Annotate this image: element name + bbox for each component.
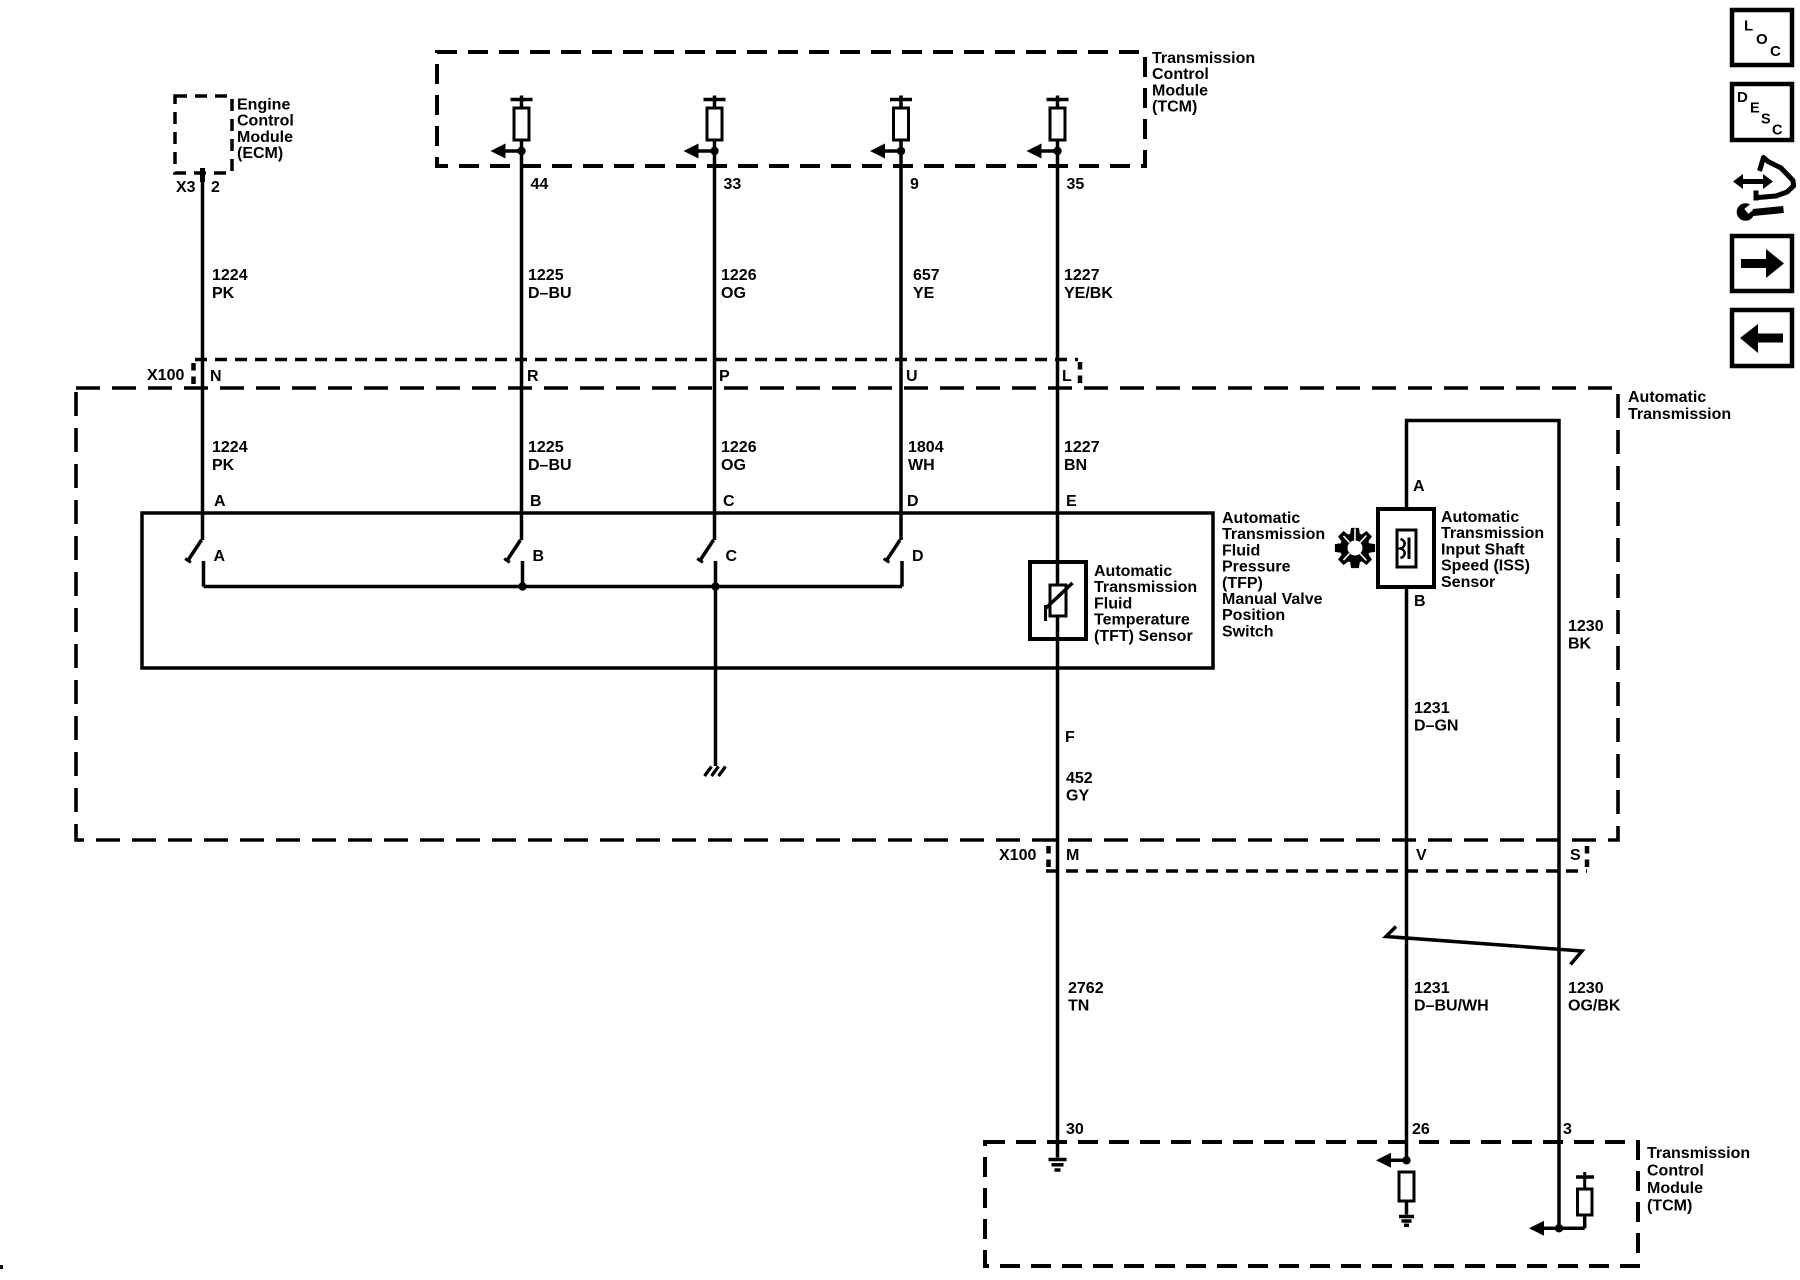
svg-text:P: P — [719, 368, 730, 385]
svg-text:Sensor: Sensor — [1441, 574, 1495, 591]
svg-text:D–BU: D–BU — [528, 457, 572, 474]
svg-text:PK: PK — [212, 457, 235, 474]
svg-text:35: 35 — [1067, 176, 1085, 193]
svg-text:V: V — [1416, 847, 1427, 864]
svg-text:(TFP): (TFP) — [1222, 575, 1263, 592]
svg-text:1804: 1804 — [908, 439, 944, 456]
svg-text:1226: 1226 — [721, 267, 757, 284]
svg-text:Input Shaft: Input Shaft — [1441, 541, 1525, 558]
svg-text:L: L — [1744, 18, 1753, 35]
svg-text:(ECM): (ECM) — [237, 145, 283, 162]
svg-text:1224: 1224 — [212, 439, 248, 456]
svg-text:D–BU/WH: D–BU/WH — [1414, 998, 1489, 1015]
svg-text:D: D — [912, 548, 924, 565]
svg-text:2762: 2762 — [1068, 980, 1104, 997]
svg-text:Temperature: Temperature — [1094, 612, 1190, 629]
svg-text:D: D — [1737, 89, 1748, 106]
svg-text:3: 3 — [1563, 1121, 1572, 1138]
svg-text:YE: YE — [913, 285, 935, 302]
svg-text:33: 33 — [724, 176, 742, 193]
svg-text:S: S — [1570, 847, 1581, 864]
svg-text:E: E — [1066, 493, 1077, 510]
svg-text:BK: BK — [1568, 636, 1592, 653]
svg-text:PK: PK — [212, 285, 235, 302]
svg-text:U: U — [906, 368, 918, 385]
svg-text:Module: Module — [1647, 1180, 1703, 1197]
svg-text:1231: 1231 — [1414, 700, 1450, 717]
svg-text:Module: Module — [1152, 82, 1208, 99]
svg-text:Automatic: Automatic — [1628, 389, 1706, 406]
svg-text:BN: BN — [1064, 457, 1087, 474]
svg-text:OG: OG — [721, 457, 746, 474]
svg-text:OG/BK: OG/BK — [1568, 998, 1621, 1015]
svg-text:Module: Module — [237, 129, 293, 146]
svg-text:R: R — [527, 368, 539, 385]
svg-text:44: 44 — [531, 176, 549, 193]
svg-text:Transmission: Transmission — [1094, 579, 1197, 596]
svg-text:S: S — [1761, 112, 1771, 128]
svg-text:(TCM): (TCM) — [1647, 1198, 1692, 1215]
svg-text:1231: 1231 — [1414, 980, 1450, 997]
svg-text:Engine: Engine — [237, 97, 290, 114]
svg-text:A: A — [214, 548, 226, 565]
svg-text:M: M — [1066, 847, 1079, 864]
svg-text:E: E — [1750, 101, 1760, 117]
svg-text:1226: 1226 — [721, 439, 757, 456]
svg-text:Control: Control — [1152, 66, 1209, 83]
svg-text:N: N — [210, 368, 222, 385]
svg-text:C: C — [726, 548, 738, 565]
svg-text:Position: Position — [1222, 607, 1285, 624]
svg-text:D: D — [907, 493, 919, 510]
svg-text:A: A — [1413, 478, 1425, 495]
svg-text:(TFT) Sensor: (TFT) Sensor — [1094, 628, 1193, 645]
svg-text:Switch: Switch — [1222, 623, 1274, 640]
svg-text:Transmission: Transmission — [1441, 525, 1544, 542]
svg-text:(TCM): (TCM) — [1152, 99, 1197, 116]
svg-text:452: 452 — [1066, 770, 1093, 787]
svg-text:Pressure: Pressure — [1222, 559, 1291, 576]
svg-text:1227: 1227 — [1064, 439, 1100, 456]
svg-text:Transmission: Transmission — [1647, 1145, 1750, 1162]
svg-text:D–BU: D–BU — [528, 285, 572, 302]
svg-text:1230: 1230 — [1568, 618, 1604, 635]
svg-text:Fluid: Fluid — [1222, 542, 1260, 559]
svg-text:OG: OG — [721, 285, 746, 302]
svg-text:Automatic: Automatic — [1094, 563, 1172, 580]
svg-text:1225: 1225 — [528, 267, 564, 284]
svg-text:TN: TN — [1068, 998, 1089, 1015]
svg-text:Automatic: Automatic — [1441, 509, 1519, 526]
svg-text:L: L — [1062, 368, 1072, 385]
svg-text:B: B — [533, 548, 545, 565]
svg-text:Transmission: Transmission — [1152, 50, 1255, 67]
svg-text:9: 9 — [910, 176, 919, 193]
svg-text:GY: GY — [1066, 788, 1089, 805]
svg-text:C: C — [723, 493, 735, 510]
svg-text:O: O — [1756, 31, 1768, 48]
svg-text:Control: Control — [1647, 1163, 1704, 1180]
svg-text:C: C — [1772, 123, 1783, 139]
svg-text:Control: Control — [237, 113, 294, 130]
svg-text:D–GN: D–GN — [1414, 718, 1458, 735]
svg-text:1224: 1224 — [212, 267, 248, 284]
svg-text:Manual Valve: Manual Valve — [1222, 591, 1323, 608]
svg-text:A: A — [214, 493, 226, 510]
svg-text:B: B — [530, 493, 542, 510]
svg-text:Transmission: Transmission — [1222, 526, 1325, 543]
svg-text:2: 2 — [211, 179, 220, 196]
svg-text:1225: 1225 — [528, 439, 564, 456]
svg-text:X100: X100 — [999, 847, 1036, 864]
svg-text:Fluid: Fluid — [1094, 595, 1132, 612]
svg-text:C: C — [1770, 43, 1781, 60]
svg-text:YE/BK: YE/BK — [1064, 285, 1113, 302]
svg-text:Automatic: Automatic — [1222, 510, 1300, 527]
svg-text:X100: X100 — [147, 367, 184, 384]
svg-text:F: F — [1065, 729, 1075, 746]
svg-text:26: 26 — [1412, 1121, 1430, 1138]
svg-text:X3: X3 — [176, 179, 196, 196]
svg-text:30: 30 — [1066, 1121, 1084, 1138]
svg-text:WH: WH — [908, 457, 935, 474]
svg-text:1227: 1227 — [1064, 267, 1100, 284]
svg-text:Transmission: Transmission — [1628, 406, 1731, 423]
svg-text:1230: 1230 — [1568, 980, 1604, 997]
svg-text:Speed (ISS): Speed (ISS) — [1441, 558, 1530, 575]
svg-text:B: B — [1414, 593, 1426, 610]
svg-text:657: 657 — [913, 267, 940, 284]
